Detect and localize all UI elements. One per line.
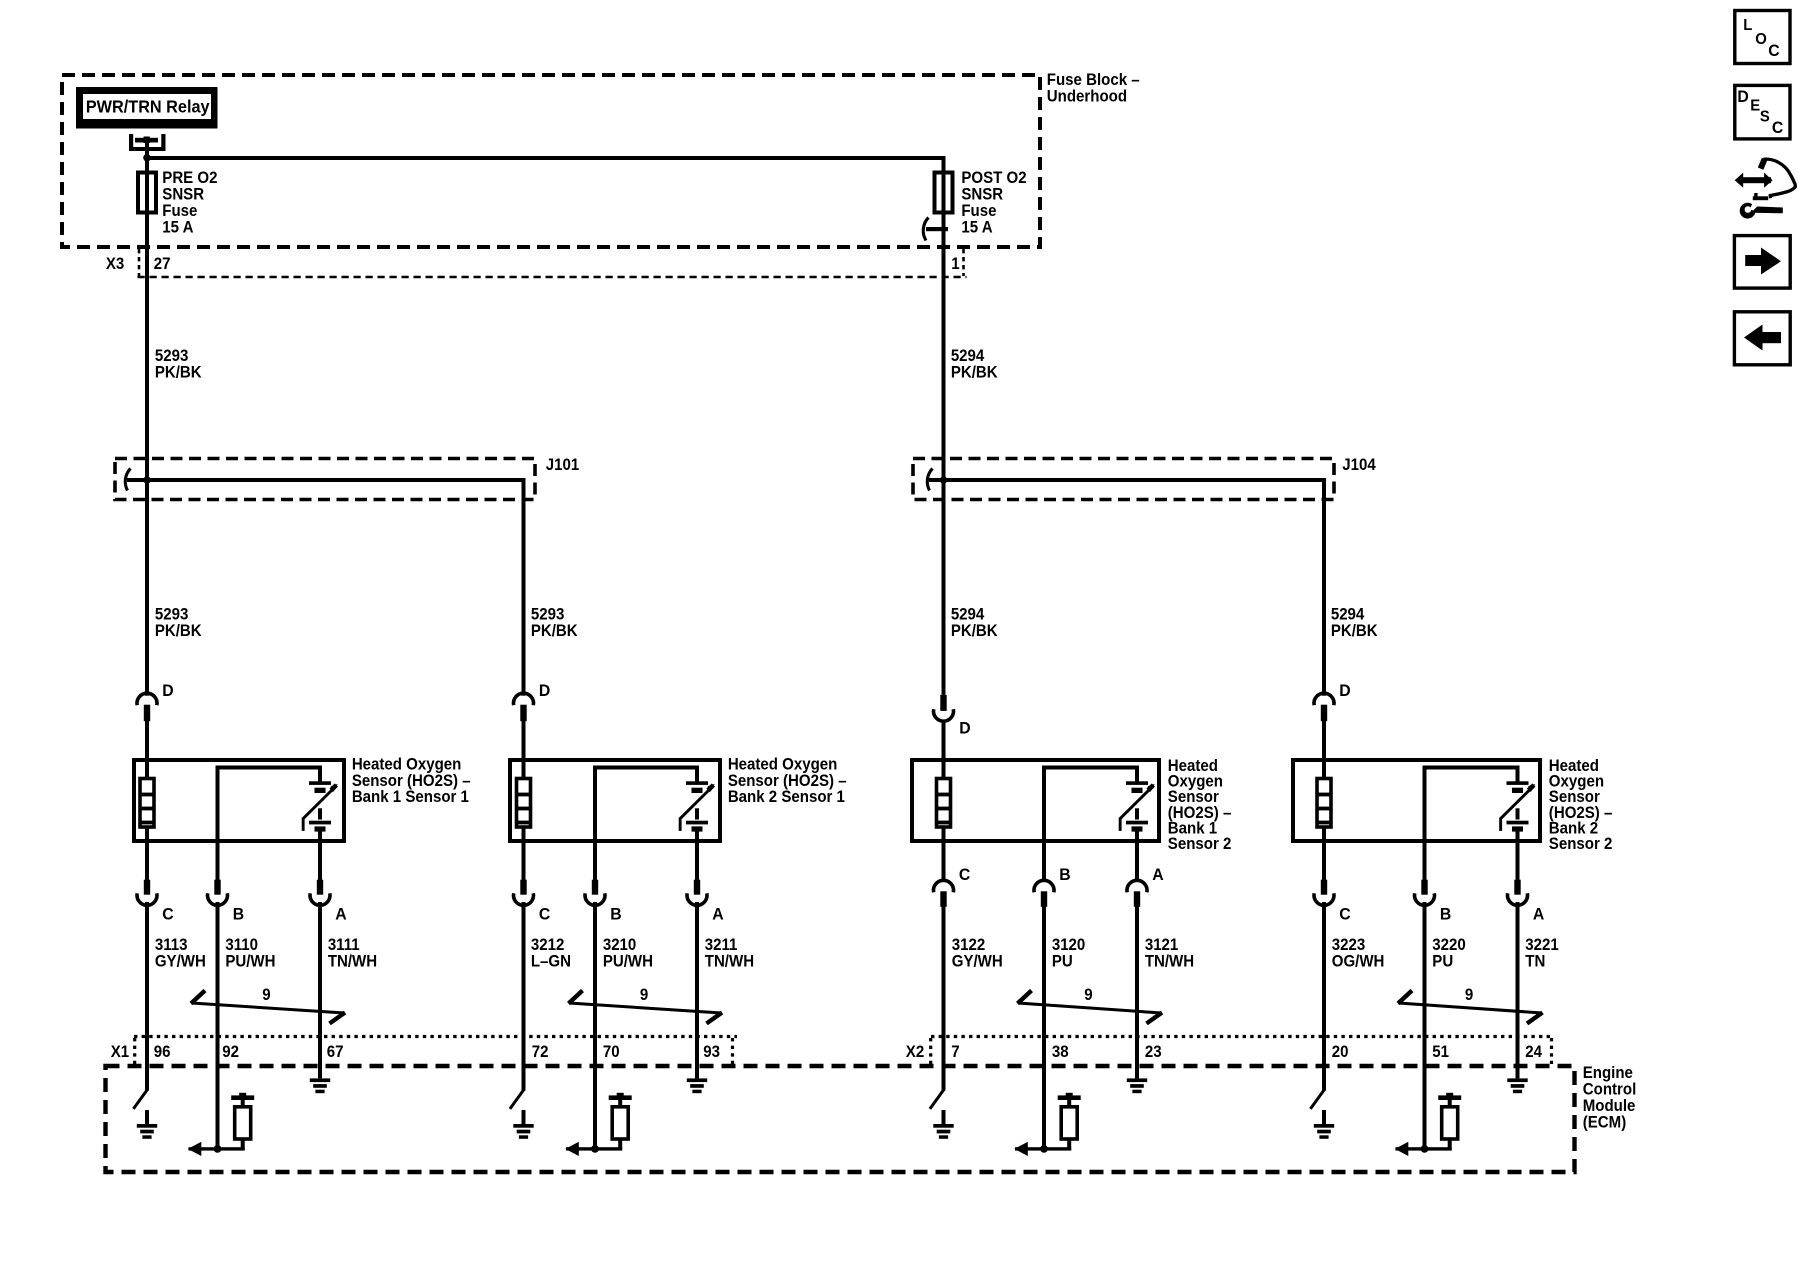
connector pin D sensor2 <box>513 682 550 722</box>
svg-text:PK/BK: PK/BK <box>531 623 579 641</box>
wire bus from relay to POST fuse <box>147 156 946 160</box>
ECM internal switch-to-ground pin 20 <box>1310 1066 1334 1139</box>
sensing cell sensor 3 <box>1119 766 1155 844</box>
svg-text:X2: X2 <box>906 1044 925 1062</box>
label J104 <box>1342 457 1376 475</box>
heater element sensor 1 <box>140 779 154 828</box>
svg-text:C: C <box>162 905 174 924</box>
HO2S sensor box B1 <box>134 760 344 841</box>
svg-text:SNSR: SNSR <box>162 186 204 204</box>
fuse F1 PRE O2 SNSR 15A <box>138 173 156 213</box>
svg-text:15 A: 15 A <box>961 219 992 237</box>
connector pin A sensor 4 <box>1508 843 1545 924</box>
svg-text:PRE O2: PRE O2 <box>162 170 217 188</box>
icon button LOC <box>1735 11 1790 64</box>
node junction J104 <box>940 476 947 483</box>
ECM internal bias resistor pin 92 <box>188 1066 254 1156</box>
label ECM pin 20 <box>1332 1044 1349 1062</box>
wire internal B-pin sensor 4 <box>1423 766 1518 844</box>
svg-text:Engine: Engine <box>1583 1065 1633 1083</box>
label ECM pin 70 <box>603 1044 620 1062</box>
svg-text:D: D <box>1339 682 1351 701</box>
connector X2 dotted line <box>931 1035 1553 1038</box>
svg-text:C: C <box>959 866 971 885</box>
connector pin B sensor 1 <box>208 843 245 924</box>
ECM internal ground pin 93 <box>687 1066 707 1093</box>
wire label 3220 PU <box>1432 937 1466 971</box>
svg-text:TN: TN <box>1525 953 1545 971</box>
svg-text:Sensor 2: Sensor 2 <box>1549 836 1613 854</box>
svg-text:TN/WH: TN/WH <box>328 953 377 971</box>
connector pin B sensor 3 <box>1034 843 1071 907</box>
svg-text:PWR/TRN Relay: PWR/TRN Relay <box>86 97 210 117</box>
icon button DESC <box>1735 85 1790 138</box>
svg-text:Heated Oxygen: Heated Oxygen <box>728 756 838 774</box>
connector hook at POST fuse output <box>923 218 948 241</box>
svg-text:TN/WH: TN/WH <box>1145 953 1194 971</box>
wire label 3210 PU/WH <box>603 937 653 971</box>
svg-text:C: C <box>1768 42 1780 61</box>
wire pigtail to ECM at x=595 <box>593 902 597 1066</box>
svg-text:Sensor (HO2S) –: Sensor (HO2S) – <box>728 772 847 790</box>
connector X2 separator left <box>929 1038 932 1064</box>
svg-text:L: L <box>1743 17 1752 35</box>
sensing cell sensor 4 <box>1499 766 1535 844</box>
svg-text:3113: 3113 <box>155 937 188 955</box>
ECM internal bias resistor pin 38 <box>1014 1066 1080 1156</box>
svg-text:D: D <box>162 682 174 701</box>
svg-text:3220: 3220 <box>1432 937 1466 955</box>
wire label 3120 PU <box>1052 937 1086 971</box>
svg-text:A: A <box>1152 866 1164 885</box>
wire label 3212 L–GN <box>531 937 571 971</box>
wire label 3121 TN/WH <box>1145 937 1194 971</box>
connector X2 separator right <box>1550 1038 1553 1064</box>
svg-text:OG/WH: OG/WH <box>1332 953 1385 971</box>
svg-text:9: 9 <box>1084 987 1093 1005</box>
wire pigtail to ECM at x=697 <box>695 902 699 1066</box>
svg-text:27: 27 <box>154 256 171 274</box>
svg-text:GY/WH: GY/WH <box>155 953 206 971</box>
svg-text:PK/BK: PK/BK <box>951 623 999 641</box>
relay K1 PWR/TRN Relay label box <box>76 87 218 129</box>
label ECM pin 96 <box>154 1044 171 1062</box>
svg-text:B: B <box>610 905 622 924</box>
wire internal B-pin sensor 3 <box>1042 766 1137 844</box>
svg-text:20: 20 <box>1332 1044 1349 1062</box>
svg-text:A: A <box>335 905 347 924</box>
ECM internal switch-to-ground pin 72 <box>510 1066 534 1139</box>
label X2 <box>906 1044 925 1062</box>
svg-text:TN/WH: TN/WH <box>705 953 754 971</box>
label HO2S sensor 1 <box>352 756 471 806</box>
wire internal B-pin sensor 2 <box>593 766 697 844</box>
HO2S sensor box B3 <box>912 760 1159 841</box>
HO2S sensor box B2 <box>510 760 720 841</box>
sensing cell sensor 2 <box>679 766 715 844</box>
svg-text:PK/BK: PK/BK <box>155 364 203 382</box>
svg-text:C: C <box>1339 905 1351 924</box>
connector J104 dashed box <box>913 459 1334 500</box>
svg-text:Module: Module <box>1583 1098 1636 1116</box>
svg-text:X3: X3 <box>106 256 125 274</box>
ECM internal ground pin 67 <box>310 1066 330 1093</box>
svg-text:C: C <box>1772 119 1784 138</box>
node junction dot below relay <box>143 154 151 162</box>
wire pigtail to ECM at x=147 <box>145 902 149 1066</box>
wire label 3223 OG/WH <box>1332 937 1385 971</box>
ECM internal switch-to-ground pin 7 <box>930 1066 954 1139</box>
svg-text:3122: 3122 <box>952 937 986 955</box>
svg-text:3121: 3121 <box>1145 937 1179 955</box>
connector pin C sensor 1 <box>137 843 174 924</box>
svg-text:E: E <box>1750 97 1760 115</box>
svg-text:96: 96 <box>154 1044 171 1062</box>
wire splice J101 horizontal <box>127 478 524 482</box>
svg-text:3110: 3110 <box>225 937 258 955</box>
wire label 5293 PK/BK col1 lower <box>155 606 203 640</box>
svg-text:5293: 5293 <box>155 606 189 624</box>
label ECM pin 24 <box>1525 1044 1542 1062</box>
svg-text:7: 7 <box>951 1044 959 1062</box>
heater element sensor 3 <box>937 779 951 828</box>
svg-text:PU: PU <box>1432 953 1453 971</box>
svg-text:Bank 2 Sensor 1: Bank 2 Sensor 1 <box>728 789 845 807</box>
heater element sensor 2 <box>517 779 531 828</box>
svg-text:38: 38 <box>1052 1044 1069 1062</box>
twisted pair 9 group2 <box>569 987 723 1024</box>
svg-text:PU: PU <box>1052 953 1073 971</box>
HO2S sensor box B4 <box>1293 760 1540 841</box>
ECM internal ground pin 23 <box>1127 1066 1147 1093</box>
connector X3 separator left <box>138 249 141 276</box>
svg-text:Underhood: Underhood <box>1047 88 1127 106</box>
connector X1 separator right <box>731 1038 734 1064</box>
connector pin A sensor 2 <box>687 843 724 924</box>
wire pigtail to ECM at x=523.5 <box>522 902 526 1066</box>
fuse block underhood dashed box <box>62 75 1040 247</box>
connector J101 dashed box <box>115 459 535 500</box>
wire label 5294 PK/BK col4 lower <box>1331 606 1379 640</box>
wire pigtail to ECM at x=1517.5 <box>1516 902 1520 1066</box>
connector pin B sensor 4 <box>1415 843 1452 924</box>
wire label 3113 GY/WH <box>155 937 206 971</box>
connector pin A sensor 1 <box>310 843 347 924</box>
svg-text:PK/BK: PK/BK <box>951 364 999 382</box>
svg-text:Bank 1 Sensor 1: Bank 1 Sensor 1 <box>352 789 469 807</box>
svg-text:3212: 3212 <box>531 937 565 955</box>
wire sensor3 D to box <box>942 720 946 844</box>
wire 5293 branch col2 (J101 to sensor2 D) <box>522 478 526 696</box>
svg-text:SNSR: SNSR <box>961 186 1003 204</box>
svg-text:70: 70 <box>603 1044 620 1062</box>
wire 5294 branch col4 (J104 to sensor4 D) <box>1322 478 1326 696</box>
svg-text:15 A: 15 A <box>162 219 193 237</box>
svg-text:67: 67 <box>327 1044 344 1062</box>
svg-text:PK/BK: PK/BK <box>1331 623 1379 641</box>
connector X3 row: thin dashed line <box>138 276 967 279</box>
wire pigtail to ECM at x=217.5 <box>216 902 220 1066</box>
label HO2S sensor 4 <box>1549 758 1613 854</box>
svg-text:PU/WH: PU/WH <box>603 953 653 971</box>
svg-text:23: 23 <box>1145 1044 1162 1062</box>
wire label 5293 PK/BK col2 lower <box>531 606 579 640</box>
svg-text:O: O <box>1755 31 1767 49</box>
wire 5293 vertical col1 (relay to sensor1 D) <box>145 157 149 696</box>
label POST O2 SNSR Fuse 15 A <box>961 170 1027 237</box>
svg-text:L–GN: L–GN <box>531 953 571 971</box>
connector X1 separator left <box>133 1038 136 1064</box>
svg-text:J101: J101 <box>546 457 580 475</box>
svg-text:1: 1 <box>951 256 960 274</box>
svg-text:A: A <box>712 905 724 924</box>
ECM internal bias resistor pin 70 <box>565 1066 631 1156</box>
label PRE O2 SNSR Fuse 15 A <box>162 170 217 237</box>
svg-text:Heated Oxygen: Heated Oxygen <box>352 756 462 774</box>
wire sensor2 D to box <box>522 721 526 843</box>
connector pin C sensor 2 <box>513 843 550 924</box>
ECM internal bias resistor pin 51 <box>1395 1066 1461 1156</box>
wire pigtail to ECM at x=1424.5 <box>1423 902 1427 1066</box>
svg-text:B: B <box>1059 866 1071 885</box>
label ECM pin 23 <box>1145 1044 1162 1062</box>
svg-text:D: D <box>539 682 551 701</box>
label ECM pin 92 <box>222 1044 239 1062</box>
wire label 3111 TN/WH <box>328 937 377 971</box>
svg-text:Sensor (HO2S) –: Sensor (HO2S) – <box>352 772 471 790</box>
svg-text:J104: J104 <box>1342 457 1376 475</box>
label ECM pin 7 <box>951 1044 959 1062</box>
wire label 5294 PK/BK upper <box>951 348 999 382</box>
ECM internal switch-to-ground pin 96 <box>133 1066 157 1139</box>
svg-text:5293: 5293 <box>155 348 189 366</box>
label Fuse Block - Underhood <box>1047 72 1140 106</box>
wire label 3221 TN <box>1525 937 1559 971</box>
connector pin D sensor1 <box>137 682 174 722</box>
svg-text:A: A <box>1533 905 1545 924</box>
svg-text:(ECM): (ECM) <box>1583 1114 1626 1132</box>
label ECM pin 67 <box>327 1044 344 1062</box>
icon button arrow left <box>1734 312 1790 365</box>
svg-text:93: 93 <box>703 1044 720 1062</box>
svg-text:51: 51 <box>1432 1044 1449 1062</box>
wire label 5293 PK/BK upper <box>155 348 203 382</box>
wire pigtail to ECM at x=943.5 <box>942 902 946 1066</box>
label HO2S sensor 2 <box>728 756 847 806</box>
connector pin A sensor 3 <box>1127 843 1164 907</box>
twisted pair 9 group4 <box>1398 987 1543 1024</box>
svg-text:9: 9 <box>640 987 649 1005</box>
ECM dashed box <box>106 1066 1575 1172</box>
connector pin D sensor4 <box>1314 682 1351 722</box>
svg-text:C: C <box>539 905 551 924</box>
wire pigtail to ECM at x=1324 <box>1322 902 1326 1066</box>
wire internal B-pin sensor 1 <box>216 766 321 844</box>
connector pin C sensor 3 <box>934 843 971 907</box>
label Engine Control Module (ECM) <box>1583 1065 1636 1132</box>
svg-text:B: B <box>1440 905 1452 924</box>
label J101 <box>546 457 580 475</box>
label HO2S sensor 3 <box>1168 758 1232 854</box>
icon button arrow right <box>1734 236 1790 289</box>
svg-text:5294: 5294 <box>951 606 985 624</box>
svg-text:3111: 3111 <box>328 937 360 955</box>
heater element sensor 4 <box>1317 779 1331 828</box>
svg-text:Fuse Block –: Fuse Block – <box>1047 72 1140 90</box>
svg-text:9: 9 <box>262 987 271 1005</box>
connector X1 dotted line <box>134 1035 737 1038</box>
wire splice J104 horizontal <box>929 478 1324 482</box>
connector X3 separator right <box>962 249 965 276</box>
wire label 3122 GY/WH <box>952 937 1003 971</box>
svg-text:72: 72 <box>532 1044 549 1062</box>
svg-text:5293: 5293 <box>531 606 565 624</box>
svg-text:3211: 3211 <box>705 937 738 955</box>
svg-text:GY/WH: GY/WH <box>952 953 1003 971</box>
svg-text:5294: 5294 <box>1331 606 1365 624</box>
svg-text:X1: X1 <box>111 1044 130 1062</box>
svg-text:Control: Control <box>1583 1081 1636 1099</box>
node junction J101 <box>143 476 150 483</box>
svg-text:Fuse: Fuse <box>961 203 996 221</box>
label ECM pin 38 <box>1052 1044 1069 1062</box>
svg-text:24: 24 <box>1525 1044 1542 1062</box>
svg-text:S: S <box>1760 108 1770 126</box>
twisted pair 9 group1 <box>191 987 345 1024</box>
svg-text:92: 92 <box>222 1044 239 1062</box>
wire label 3211 TN/WH <box>705 937 754 971</box>
svg-text:3210: 3210 <box>603 937 637 955</box>
svg-text:D: D <box>959 719 971 738</box>
connector pin C sensor 4 <box>1314 843 1351 924</box>
svg-text:Sensor 2: Sensor 2 <box>1168 836 1232 854</box>
icon hand sketch with double arrow and wrench <box>1735 159 1796 219</box>
svg-text:9: 9 <box>1465 987 1474 1005</box>
fuse F2 POST O2 SNSR 15A <box>935 173 953 213</box>
svg-text:PU/WH: PU/WH <box>225 953 275 971</box>
svg-text:PK/BK: PK/BK <box>155 623 203 641</box>
ECM internal ground pin 24 <box>1507 1066 1527 1093</box>
wire sensor1 D to box <box>145 721 149 843</box>
svg-text:D: D <box>1737 87 1749 106</box>
svg-text:Fuse: Fuse <box>162 203 197 221</box>
svg-text:B: B <box>233 905 245 924</box>
connector pin B sensor 2 <box>585 843 622 924</box>
svg-text:3120: 3120 <box>1052 937 1086 955</box>
wire 5294 vertical col3 (bus to sensor3 D) <box>942 158 946 695</box>
connector pin D sensor3 <box>934 695 971 738</box>
label ECM pin 51 <box>1432 1044 1449 1062</box>
wire pigtail to ECM at x=320 <box>318 902 322 1066</box>
svg-text:POST O2: POST O2 <box>961 170 1027 188</box>
wire pigtail to ECM at x=1137 <box>1135 902 1139 1066</box>
relay K1 contact symbol <box>129 134 166 157</box>
sensing cell sensor 1 <box>302 766 338 844</box>
wire label 5294 PK/BK col3 lower <box>951 606 999 640</box>
svg-text:3223: 3223 <box>1332 937 1366 955</box>
connector hook J101 <box>125 469 130 491</box>
wire pigtail to ECM at x=1044 <box>1042 902 1046 1066</box>
wire sensor4 D to box <box>1322 721 1326 843</box>
label X1 <box>111 1044 130 1062</box>
svg-text:5294: 5294 <box>951 348 985 366</box>
wire label 3110 PU/WH <box>225 937 275 971</box>
twisted pair 9 group3 <box>1018 987 1163 1024</box>
connector hook J104 <box>927 469 932 491</box>
label X3 pin 27 pin 1 <box>106 256 960 274</box>
label ECM pin 93 <box>703 1044 720 1062</box>
svg-text:3221: 3221 <box>1525 937 1559 955</box>
label ECM pin 72 <box>532 1044 549 1062</box>
